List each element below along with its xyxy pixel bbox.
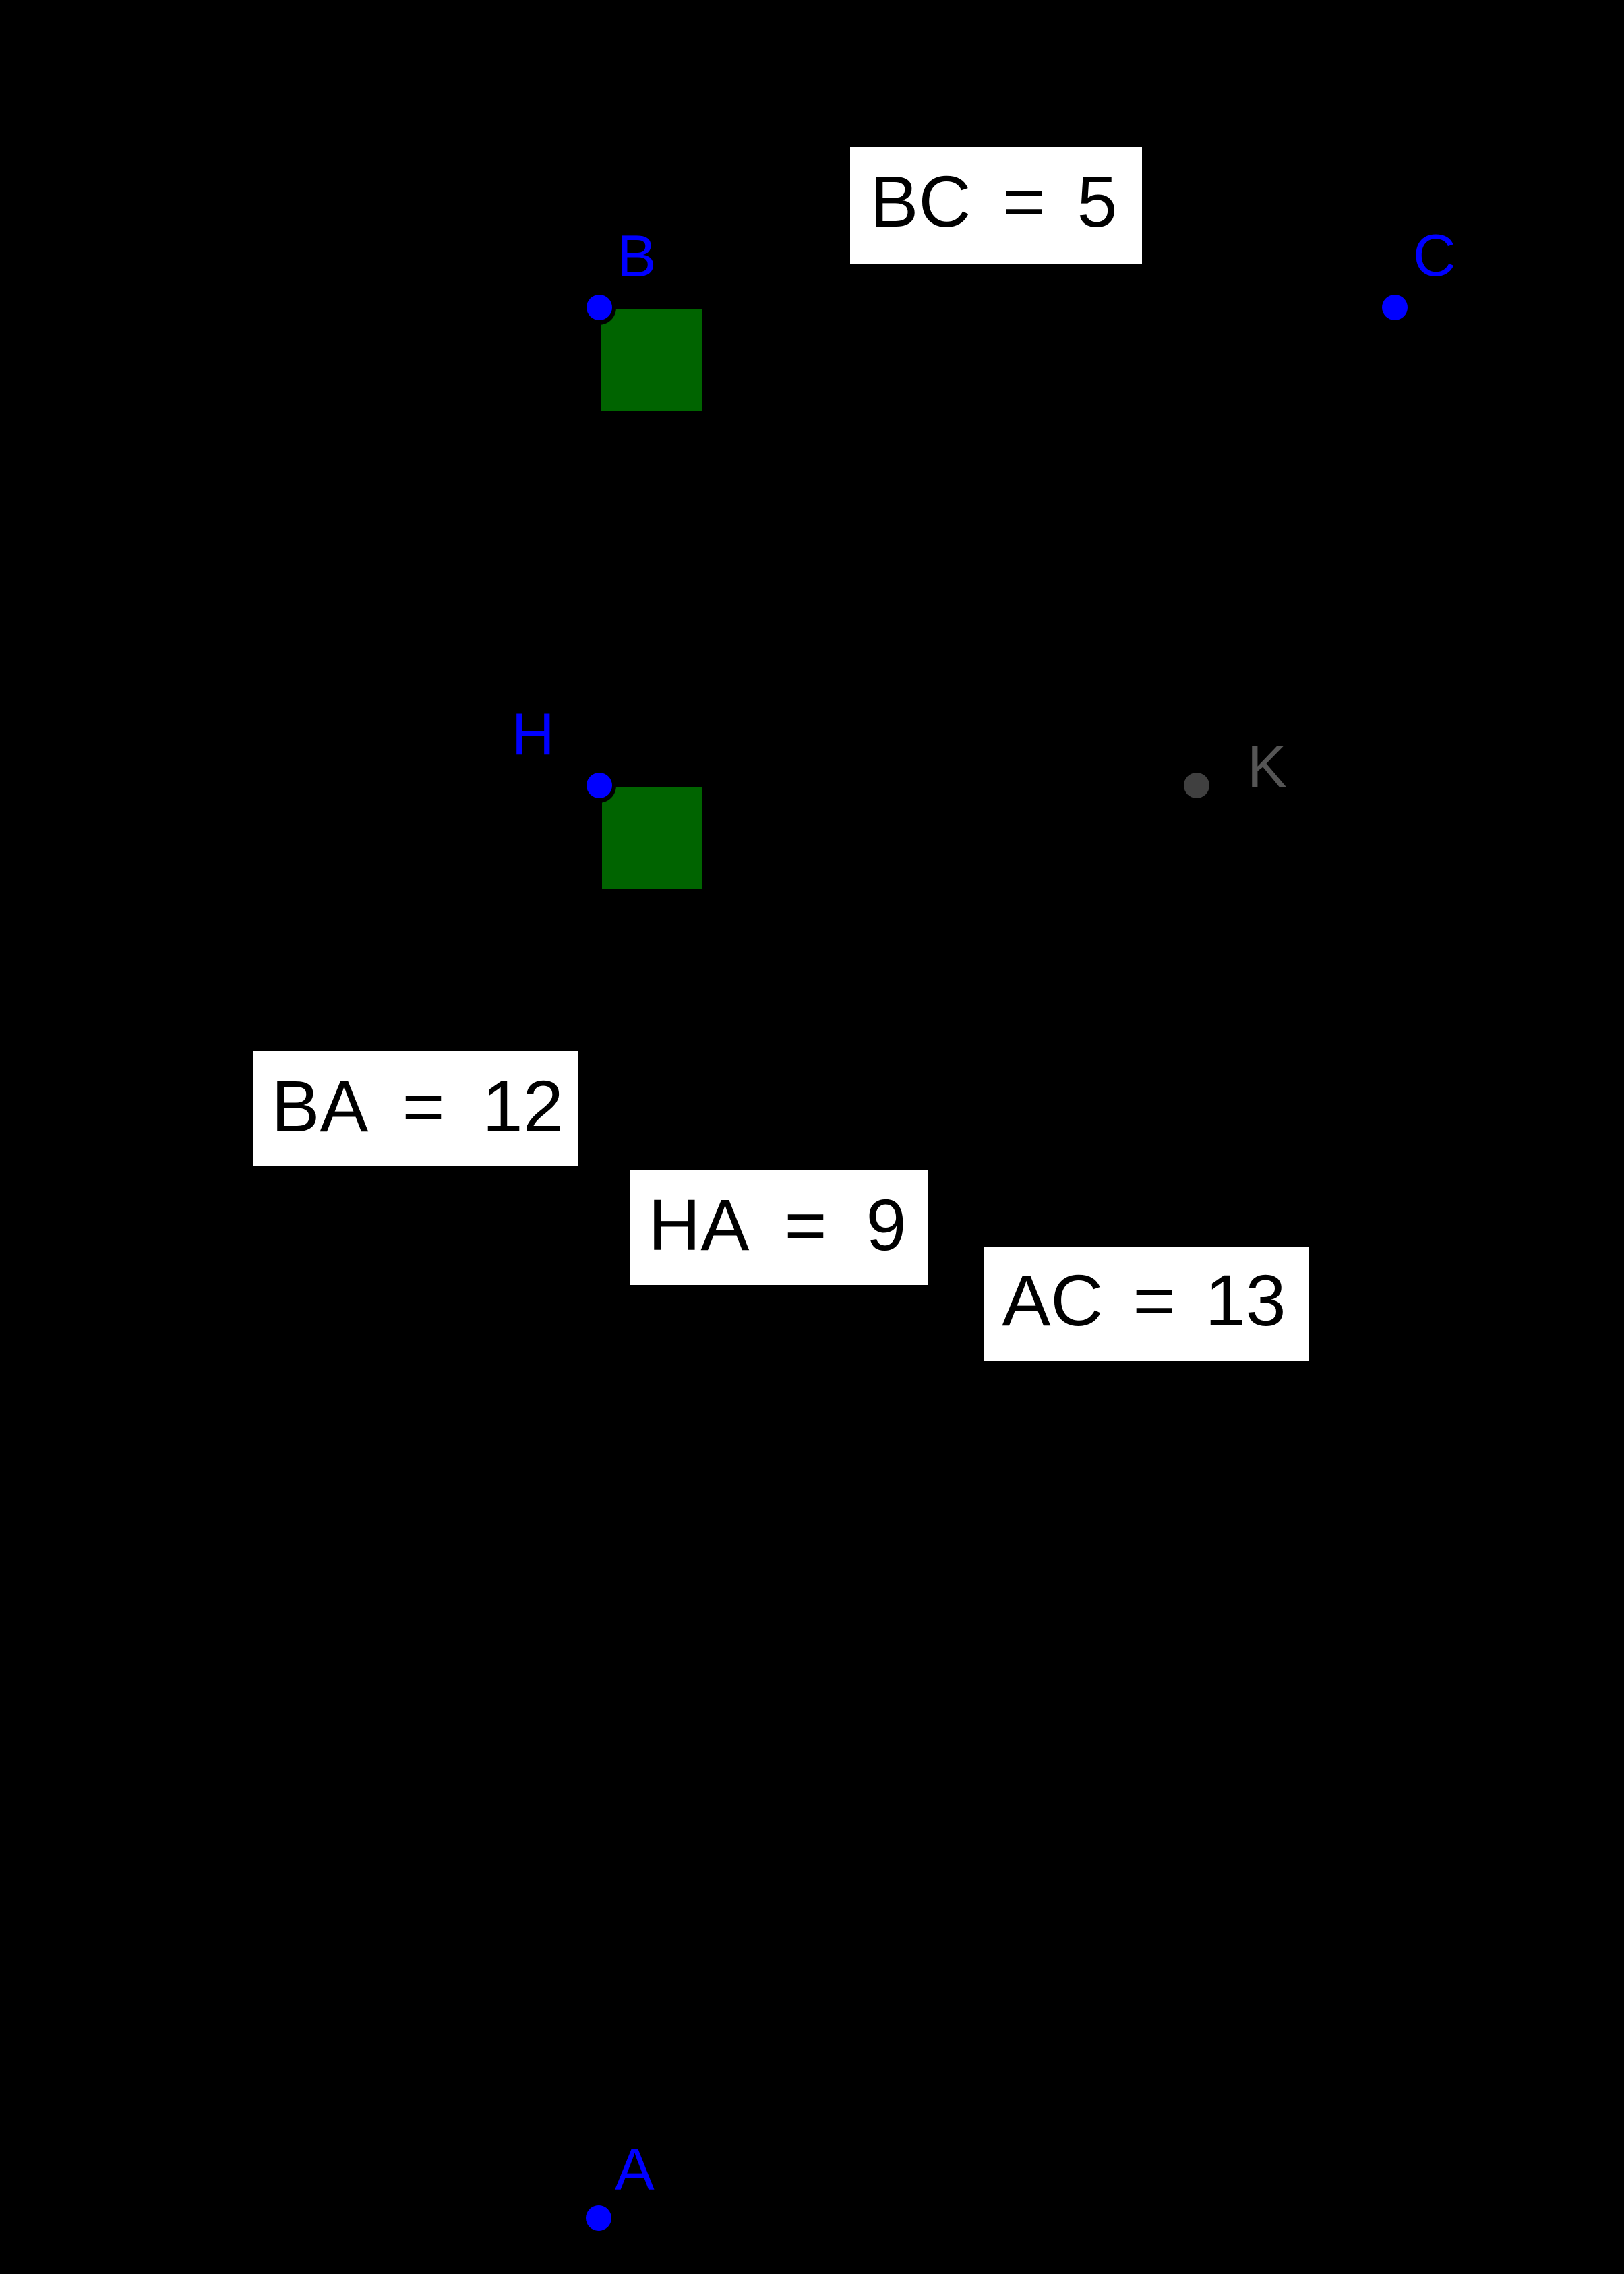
label A — [615, 2140, 655, 2199]
label B — [617, 227, 657, 286]
label H — [512, 705, 555, 764]
point H — [587, 773, 612, 798]
label box BA = 12 — [253, 1051, 578, 1166]
point C — [1382, 295, 1408, 320]
label K (gray) — [1247, 737, 1287, 796]
point halo H — [582, 769, 616, 803]
label box AC = 13 — [984, 1247, 1309, 1361]
right-angle marker (green square) at H — [602, 787, 702, 889]
point K (gray) — [1184, 773, 1209, 798]
label C — [1413, 226, 1456, 285]
label box BC = 5 — [850, 147, 1142, 264]
point A — [586, 2205, 611, 2231]
point B — [587, 295, 612, 320]
label box HA = 9 — [630, 1170, 928, 1285]
point halo B — [582, 291, 616, 325]
right-angle marker (green square) at B — [601, 309, 702, 411]
